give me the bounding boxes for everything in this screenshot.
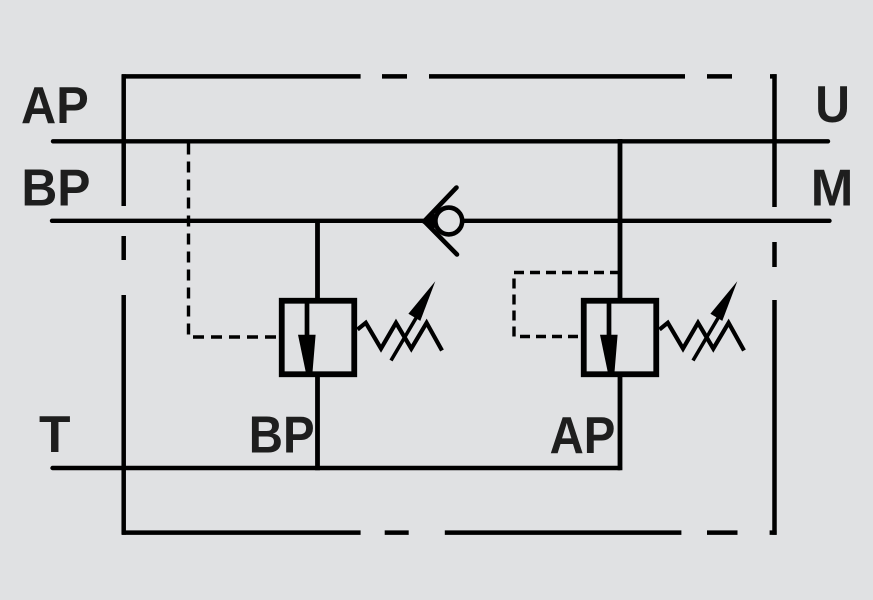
svg-text:T: T: [39, 406, 71, 464]
svg-text:AP: AP: [21, 77, 89, 135]
svg-text:BP: BP: [249, 407, 315, 465]
svg-text:M: M: [811, 160, 854, 218]
svg-text:AP: AP: [550, 407, 616, 465]
svg-text:U: U: [815, 76, 850, 134]
svg-text:BP: BP: [21, 159, 90, 217]
